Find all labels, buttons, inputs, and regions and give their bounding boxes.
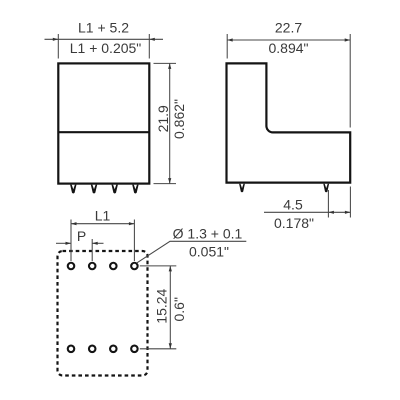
- svg-text:0.894": 0.894": [268, 40, 308, 56]
- right height dimension (front view): [154, 63, 177, 183]
- dashed footprint outline: [58, 251, 148, 376]
- pin 3 (front view): [112, 185, 118, 194]
- P dimension (footprint): [56, 239, 104, 261]
- svg-text:0.862": 0.862": [171, 99, 187, 139]
- connector body outline: [58, 63, 149, 183]
- svg-text:21.9: 21.9: [155, 105, 171, 132]
- top width dimension (front view): [45, 34, 164, 59]
- svg-text:0.051": 0.051": [189, 244, 229, 260]
- L1 dimension (footprint): [71, 220, 134, 262]
- svg-text:Ø 1.3 + 0.1: Ø 1.3 + 0.1: [173, 226, 243, 242]
- top width dimension (side view): [227, 34, 350, 128]
- 15.24 dimension (footprint): [140, 266, 177, 349]
- hole row 2: [68, 346, 75, 353]
- svg-text:L1 + 5.2: L1 + 5.2: [78, 20, 129, 36]
- L-shaped side profile: [227, 63, 351, 182]
- pin 2 (front view): [91, 185, 97, 194]
- hole diameter leader: [137, 241, 246, 262]
- svg-text:0.178": 0.178": [274, 215, 314, 231]
- pin right (side view): [323, 184, 329, 193]
- pin 4 (front view): [132, 185, 138, 194]
- pin left (side view): [239, 184, 245, 193]
- svg-text:P: P: [77, 228, 86, 244]
- svg-text:L1: L1: [95, 208, 111, 224]
- svg-text:L1 + 0.205": L1 + 0.205": [70, 40, 142, 56]
- bottom 4.5 dimension (side view): [264, 187, 350, 218]
- body divider line: [58, 131, 149, 133]
- svg-text:22.7: 22.7: [275, 20, 302, 36]
- hole row 1: [68, 263, 75, 270]
- svg-text:15.24: 15.24: [153, 288, 169, 323]
- pin 1 (front view): [70, 185, 76, 194]
- svg-text:0.6": 0.6": [171, 297, 187, 321]
- svg-text:4.5: 4.5: [283, 197, 303, 213]
